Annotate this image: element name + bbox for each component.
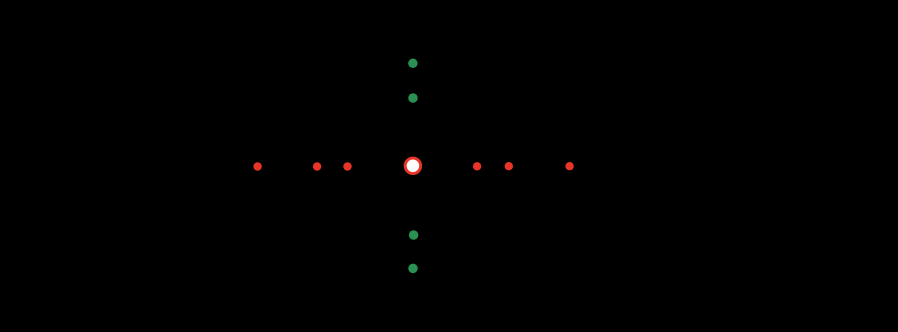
junction dot red right outer <box>565 162 573 170</box>
junction dot red left inner <box>343 162 351 170</box>
junction dot red right middle <box>505 162 513 170</box>
junction dot green bottom inner <box>409 230 419 240</box>
junction dot green bottom outer <box>408 264 418 274</box>
junction dot red left middle <box>313 162 321 170</box>
junction dot red right inner <box>473 162 481 170</box>
junction dot green top inner <box>408 93 418 103</box>
junction dot green top outer <box>408 59 418 69</box>
junction dot red left outer <box>253 162 261 170</box>
node center (open terminal, white with red ring) <box>405 158 421 174</box>
